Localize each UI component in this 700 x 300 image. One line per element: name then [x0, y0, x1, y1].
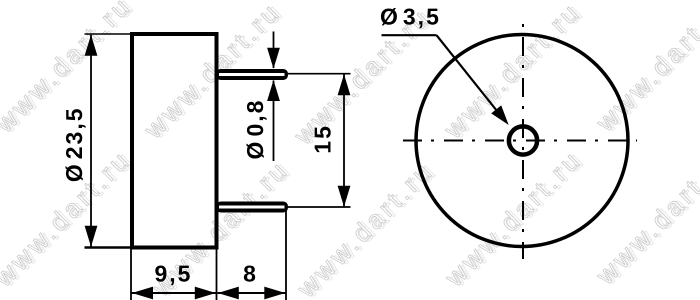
buzzer body (side view) — [132, 34, 217, 248]
upper pin — [216, 69, 288, 80]
leader D3.5: shoulder — [382, 34, 437, 36]
sound hole D3.5 — [509, 126, 537, 154]
dimension 15: arrow up — [338, 74, 351, 95]
dimension D23.5: extension line bottom — [85, 246, 131, 248]
leader D3.5: arrowhead — [491, 105, 509, 125]
dimension 9.5: left extension line — [130, 249, 132, 300]
dimension 8: arrow right — [264, 287, 285, 300]
dimension D0.8: lower leader line — [273, 81, 275, 162]
dimension D0.8: upper leader line — [273, 32, 275, 69]
dimension D0.8: arrow down to pin top — [267, 48, 280, 69]
dimension 8: right extension line — [285, 207, 287, 300]
dimension 15: upper extension line — [288, 73, 351, 75]
svg-text:15: 15 — [310, 124, 336, 154]
dimension 9.5: dimension line — [132, 292, 217, 294]
lower pin — [216, 202, 288, 213]
svg-text:Ø3,5: Ø3,5 — [380, 4, 441, 30]
dimension 8: dimension line — [218, 292, 286, 294]
dimension 9.5/8: middle extension line — [216, 249, 218, 300]
svg-text:8: 8 — [243, 261, 258, 287]
svg-text:Ø23,5: Ø23,5 — [61, 106, 87, 182]
dimension 9.5: arrow left — [132, 287, 153, 300]
dimension 15: dimension line — [343, 74, 345, 206]
svg-text:Ø0,8: Ø0,8 — [242, 99, 268, 160]
dimension 15: lower extension line — [288, 206, 351, 208]
svg-text:9,5: 9,5 — [155, 261, 193, 287]
horizontal centerline — [403, 140, 637, 142]
vertical centerline — [522, 24, 524, 259]
dimension D23.5: dimension line — [90, 35, 92, 247]
buzzer face outline (front view) — [416, 35, 628, 247]
leader D3.5: diagonal — [437, 35, 506, 121]
dimension D23.5: arrow up — [85, 35, 98, 56]
dimension 9.5: arrow right — [195, 287, 216, 300]
dimension 15: arrow down — [338, 186, 351, 207]
dimension D0.8: arrow up to pin bottom — [267, 80, 280, 101]
dimension 8: arrow left — [218, 287, 239, 300]
dimension D23.5: arrow down — [85, 226, 98, 247]
dimension D23.5: extension line top — [85, 33, 131, 35]
